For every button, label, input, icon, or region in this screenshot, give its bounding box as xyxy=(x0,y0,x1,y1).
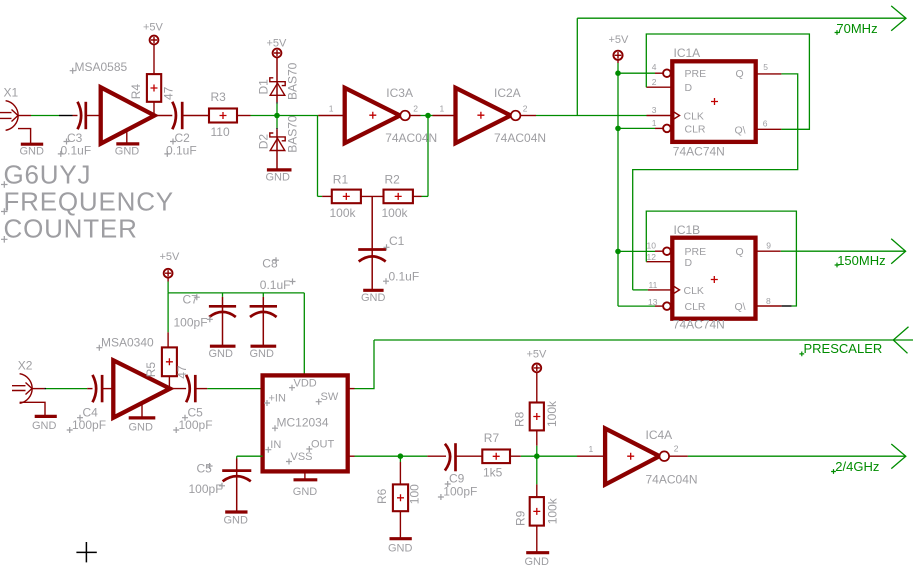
capacitor C8 0.1uF xyxy=(250,257,296,347)
svg-text:74AC74N: 74AC74N xyxy=(673,144,725,158)
resistor R3 110 xyxy=(209,90,251,139)
wire to R1 xyxy=(318,195,323,197)
svg-text:VDD: VDD xyxy=(294,377,317,389)
pin 9 Q xyxy=(756,241,781,252)
svg-text:0.1uF: 0.1uF xyxy=(260,278,291,292)
pin 8 Q\ xyxy=(756,296,782,306)
capacitor C2 0.1uF xyxy=(155,102,210,158)
svg-text:GND: GND xyxy=(361,292,386,304)
supply +5V at IC1 xyxy=(609,34,630,63)
svg-text:100pF: 100pF xyxy=(189,482,223,496)
svg-text:R1: R1 xyxy=(333,173,349,187)
capacitor C1 0.1uF xyxy=(358,196,419,290)
inverter IC3A 74AC04N xyxy=(318,86,437,145)
svg-text:Q: Q xyxy=(736,68,744,80)
ground at MSA0585 xyxy=(115,130,140,157)
junction at IC3A output xyxy=(425,113,431,119)
supply +5V at R4 xyxy=(143,22,164,45)
svg-text:+IN: +IN xyxy=(269,393,286,405)
pin 6 Q\ xyxy=(756,118,782,129)
svg-text:13: 13 xyxy=(648,297,658,307)
wire Q\ to D feedback xyxy=(646,34,809,129)
svg-text:Q: Q xyxy=(736,246,744,258)
svg-text:CLR: CLR xyxy=(685,123,706,135)
svg-text:GND: GND xyxy=(388,543,413,555)
svg-text:GND: GND xyxy=(224,514,249,526)
svg-text:GND: GND xyxy=(209,348,234,360)
svg-text:SW: SW xyxy=(321,391,339,403)
connector X1 xyxy=(0,86,19,131)
svg-text:1k5: 1k5 xyxy=(483,465,503,479)
net 2/4GHz with arrow xyxy=(688,444,906,474)
svg-text:Q\: Q\ xyxy=(735,301,746,313)
capacitor C3 0.1uF xyxy=(58,102,101,158)
capacitor C7 100pF xyxy=(174,292,237,346)
resistor R2 100k xyxy=(382,173,422,220)
resistor R1 100k xyxy=(322,173,361,220)
resistor R7 1k5 xyxy=(482,431,521,479)
svg-text:100k: 100k xyxy=(382,206,409,220)
svg-text:X2: X2 xyxy=(18,359,33,373)
svg-text:100pF: 100pF xyxy=(174,315,208,329)
svg-text:D: D xyxy=(685,82,693,94)
wire +5V down to R5 xyxy=(167,293,169,332)
svg-text:IC3A: IC3A xyxy=(386,86,413,100)
svg-text:R6: R6 xyxy=(375,488,389,504)
supply +5V at VDD rail xyxy=(160,251,181,282)
svg-text:70MHz: 70MHz xyxy=(836,21,877,36)
connector X2 xyxy=(12,359,33,404)
svg-text:12: 12 xyxy=(647,252,657,262)
pin 10 PRE xyxy=(647,241,671,255)
svg-text:C7: C7 xyxy=(183,292,199,306)
capacitor C4 100pF xyxy=(67,375,114,433)
svg-text:GND: GND xyxy=(293,486,318,498)
svg-text:R7: R7 xyxy=(484,431,500,445)
svg-text:74AC74N: 74AC74N xyxy=(673,318,725,332)
wire OUT net xyxy=(355,455,428,457)
amplifier MSA0340 xyxy=(96,336,170,418)
svg-text:VSS: VSS xyxy=(291,451,313,463)
pin 13 CLR xyxy=(618,297,671,310)
junction at R7 node xyxy=(534,453,540,459)
inverter IC4A 74AC04N xyxy=(537,428,698,487)
svg-text:100: 100 xyxy=(408,484,422,504)
wire IC3A out xyxy=(421,115,433,117)
wire X2 to C4 xyxy=(46,388,87,390)
svg-text:CLK: CLK xyxy=(684,285,704,297)
svg-text:6: 6 xyxy=(763,118,768,128)
svg-text:47: 47 xyxy=(161,86,175,100)
ground at X2 xyxy=(20,402,57,432)
wire IC2A out to CLK xyxy=(536,115,647,117)
svg-text:IC4A: IC4A xyxy=(646,428,673,442)
svg-text:MC12034: MC12034 xyxy=(277,416,329,430)
svg-text:+5V: +5V xyxy=(160,251,181,263)
svg-text:G6UYJ: G6UYJ xyxy=(4,160,92,190)
ground at X1 xyxy=(18,129,44,158)
svg-text:FREQUENCY: FREQUENCY xyxy=(4,187,174,217)
svg-text:74AC04N: 74AC04N xyxy=(646,472,698,486)
pin OUT stub xyxy=(348,455,355,457)
pin 5 Q xyxy=(756,62,782,74)
ground at C7 xyxy=(209,346,236,360)
svg-text:MSA0340: MSA0340 xyxy=(101,336,154,350)
ground at D2 xyxy=(266,170,292,184)
flip-flop IC1A 74AC74N xyxy=(672,46,755,159)
supply +5V at R8 xyxy=(527,348,548,372)
svg-text:3: 3 xyxy=(652,105,657,115)
svg-text:110: 110 xyxy=(211,125,230,139)
wire node to IC3A input xyxy=(277,115,318,117)
wire +5V rail xyxy=(617,63,619,306)
svg-text:8: 8 xyxy=(766,296,771,306)
svg-text:100k: 100k xyxy=(546,497,560,524)
resistor R4 47 xyxy=(129,44,176,115)
svg-text:100pF: 100pF xyxy=(443,485,477,499)
wire PRESCALER to SW xyxy=(355,340,375,389)
ground at C8 xyxy=(250,346,277,360)
svg-text:PRESCALER: PRESCALER xyxy=(804,341,883,356)
svg-text:BAS70: BAS70 xyxy=(286,115,300,153)
prescaler IC MC12034 xyxy=(263,375,348,471)
capacitor C9 100pF xyxy=(427,443,482,500)
svg-text:CLR: CLR xyxy=(685,301,706,313)
svg-text:74AC04N: 74AC04N xyxy=(385,131,437,145)
svg-text:R4: R4 xyxy=(129,84,143,100)
svg-text:MSA0585: MSA0585 xyxy=(75,60,128,74)
supply +5V at D1 xyxy=(267,38,288,58)
pin 4 PRE xyxy=(652,62,671,77)
svg-text:5: 5 xyxy=(763,62,768,72)
wire branch up to 70MHz xyxy=(576,18,578,115)
net 150MHz with arrow xyxy=(781,239,906,268)
pin 11 CLK xyxy=(633,280,673,290)
svg-text:IC2A: IC2A xyxy=(494,86,521,100)
svg-text:4: 4 xyxy=(652,62,657,72)
amplifier MSA0585 xyxy=(70,60,155,144)
title text G6UYJ FREQUENCY COUNTER xyxy=(1,160,174,244)
svg-text:0.1uF: 0.1uF xyxy=(166,144,197,158)
junction at OUT xyxy=(398,453,404,459)
junction node D1 D2 xyxy=(274,113,280,119)
resistor R6 100 xyxy=(375,456,422,538)
svg-text:D: D xyxy=(685,257,693,269)
svg-text:11: 11 xyxy=(649,280,658,290)
svg-text:100pF: 100pF xyxy=(179,418,213,432)
svg-text:CLK: CLK xyxy=(684,110,704,122)
svg-text:R2: R2 xyxy=(385,173,401,187)
diode D1 BAS70 xyxy=(256,57,299,102)
wire black segment xyxy=(59,115,73,117)
wire X1 to C3 xyxy=(31,115,59,117)
svg-text:D2: D2 xyxy=(256,134,270,150)
svg-text:2: 2 xyxy=(674,443,679,453)
svg-text:150MHz: 150MHz xyxy=(837,253,885,268)
svg-text:PRE: PRE xyxy=(685,68,707,80)
wire R1 to R2 xyxy=(361,195,384,197)
svg-text:C9: C9 xyxy=(449,472,465,486)
resistor R8 100k xyxy=(513,372,560,456)
X1 pin xyxy=(18,115,31,117)
svg-text:100k: 100k xyxy=(330,206,357,220)
svg-text:+5V: +5V xyxy=(609,34,630,46)
wire branch down to R1 xyxy=(317,116,319,197)
ground at C1 xyxy=(361,290,386,304)
svg-text:2: 2 xyxy=(652,77,657,87)
pin 2 D xyxy=(646,77,672,87)
svg-text:0.1uF: 0.1uF xyxy=(61,144,92,158)
pin SW stub xyxy=(348,388,355,390)
wire Q\ to D feedback IC1B xyxy=(646,211,796,306)
svg-text:R3: R3 xyxy=(211,90,227,104)
pin 3 CLK xyxy=(647,105,673,116)
svg-text:74AC04N: 74AC04N xyxy=(494,131,546,145)
svg-text:BAS70: BAS70 xyxy=(286,62,300,100)
ground at MSA0340 xyxy=(129,404,156,434)
wire D1 to node xyxy=(276,102,278,103)
svg-text:0.1uF: 0.1uF xyxy=(389,269,420,283)
net PRESCALER with arrow xyxy=(374,327,913,357)
wire black segment X2 xyxy=(44,388,46,390)
svg-text:GND: GND xyxy=(525,556,550,568)
svg-text:GND: GND xyxy=(32,420,57,432)
wire branch down to R2 xyxy=(427,116,429,197)
svg-text:GND: GND xyxy=(115,146,140,158)
wire to CLR IC1A xyxy=(618,127,655,129)
wire R3 to diode node xyxy=(251,115,278,117)
pin 1 CLR xyxy=(652,118,671,132)
wire R2 to branch xyxy=(422,195,429,197)
net 70MHz with arrow xyxy=(577,6,906,36)
ground at MC12034 xyxy=(293,471,318,497)
ground at R9 xyxy=(525,553,550,568)
junction rail PRE IC1B xyxy=(615,249,621,255)
wire +5V to VDD xyxy=(168,282,304,376)
capacitor C5 100pF xyxy=(170,375,213,433)
svg-text:1: 1 xyxy=(652,118,657,128)
svg-text:+5V: +5V xyxy=(143,22,164,34)
resistor R5 47 xyxy=(144,347,189,388)
svg-text:OUT: OUT xyxy=(311,438,335,450)
junction rail PRE IC1A xyxy=(615,70,621,76)
wire R7 to node xyxy=(521,455,537,457)
svg-text:100pF: 100pF xyxy=(72,418,106,432)
capacitor C6 100pF at -IN xyxy=(189,456,263,512)
X2 pin xyxy=(32,388,45,390)
svg-text:R8: R8 xyxy=(513,411,527,427)
svg-text:IN: IN xyxy=(270,439,281,451)
wire C5 to +IN xyxy=(207,388,262,390)
svg-text:C1: C1 xyxy=(389,234,405,248)
svg-text:R5: R5 xyxy=(144,362,158,378)
svg-text:GND: GND xyxy=(20,146,45,158)
svg-text:+5V: +5V xyxy=(527,348,548,360)
svg-text:2: 2 xyxy=(523,103,528,113)
svg-text:2: 2 xyxy=(413,103,418,113)
wire to PRE IC1B xyxy=(618,250,655,252)
junction rail CLR IC1A xyxy=(615,126,621,132)
svg-text:GND: GND xyxy=(250,348,275,360)
svg-text:IC1A: IC1A xyxy=(674,46,701,60)
svg-text:IC1B: IC1B xyxy=(674,223,701,237)
svg-text:GND: GND xyxy=(129,422,154,434)
svg-text:2/4GHz: 2/4GHz xyxy=(835,459,879,474)
inverter IC2A 74AC04N xyxy=(433,86,547,145)
svg-text:Q\: Q\ xyxy=(735,124,746,136)
svg-text:X1: X1 xyxy=(4,86,19,100)
svg-text:COUNTER: COUNTER xyxy=(4,214,138,244)
ground at C6 xyxy=(224,512,249,526)
diode D2 BAS70 xyxy=(256,115,299,169)
ground at R6 xyxy=(388,539,413,555)
svg-text:D1: D1 xyxy=(256,79,270,95)
wire to PRE IC1A xyxy=(618,72,655,74)
svg-text:R9: R9 xyxy=(514,510,528,526)
pin 12 D xyxy=(646,252,672,262)
svg-text:10: 10 xyxy=(647,241,657,251)
svg-text:1: 1 xyxy=(440,103,445,113)
svg-text:100k: 100k xyxy=(545,400,559,427)
flip-flop IC1B 74AC74N xyxy=(672,223,755,332)
svg-text:GND: GND xyxy=(266,172,291,184)
svg-text:1: 1 xyxy=(589,444,594,454)
svg-text:9: 9 xyxy=(766,241,771,251)
resistor R9 100k xyxy=(514,456,560,552)
svg-text:1: 1 xyxy=(329,103,334,113)
wire Q to CLK of IC1B xyxy=(633,74,798,290)
origin cross xyxy=(76,542,96,562)
wire black segment pin 8 xyxy=(782,305,792,307)
